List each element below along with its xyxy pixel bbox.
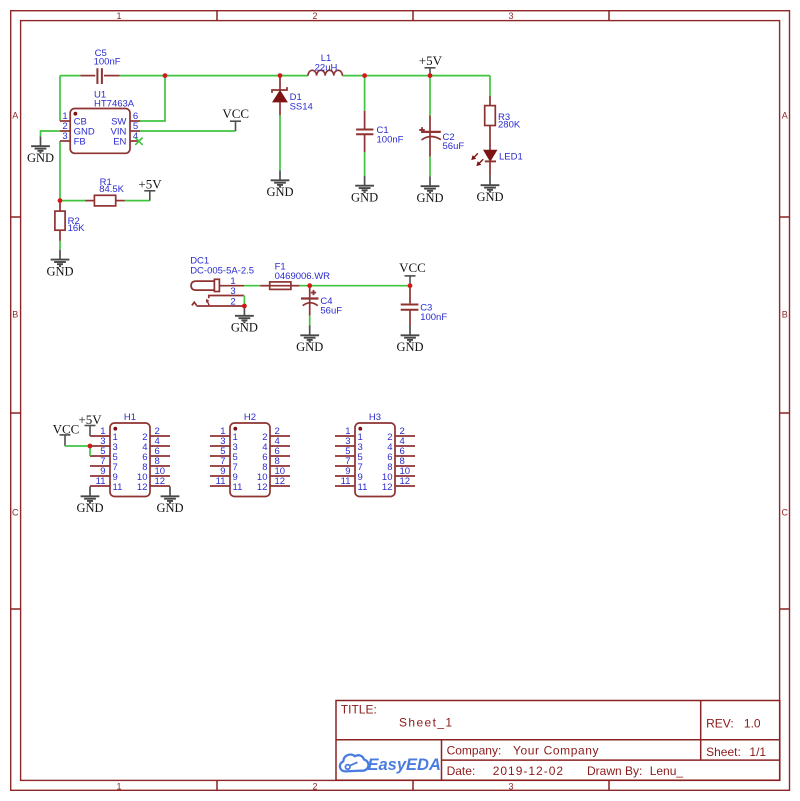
svg-text:DC-005-5A-2.5: DC-005-5A-2.5: [190, 266, 254, 277]
H3 pin 10: [382, 466, 415, 483]
svg-text:EasyEDA: EasyEDA: [368, 756, 441, 774]
port VCC at H1: [53, 422, 80, 446]
svg-text:H1: H1: [124, 412, 136, 423]
frame tick left 3: [11, 608, 21, 610]
wire VCC to H1 pin3: [65, 445, 90, 447]
svg-text:1: 1: [116, 11, 121, 21]
frame tick top 2: [412, 11, 414, 21]
wire C2 top: [429, 76, 431, 116]
wire top net left segment: [60, 75, 80, 77]
svg-text:A: A: [782, 110, 788, 120]
H1 pin 6: [142, 446, 170, 463]
svg-text:Sheet:: Sheet:: [706, 745, 741, 759]
capacitor C3 100nF: [401, 286, 448, 326]
H2 pin 2: [262, 426, 290, 443]
ground GND at DC1: [231, 306, 258, 335]
H3 pin 11: [335, 476, 367, 493]
port VCC middle net: [399, 260, 426, 286]
H1 pin 7: [90, 456, 118, 473]
wire F1 to VCC node: [299, 285, 410, 287]
title block right column divider: [700, 701, 702, 761]
svg-text:12: 12: [155, 476, 166, 487]
H1 pin 4: [142, 436, 170, 453]
frame tick bottom 1: [216, 780, 218, 790]
H3 pin 2: [387, 426, 415, 443]
title block logo cell divider: [441, 740, 443, 780]
wire top net middle segment: [120, 75, 308, 77]
port +5V top net: [419, 53, 443, 76]
svg-text:Drawn By:: Drawn By:: [587, 764, 642, 778]
H2 pin 11: [210, 476, 242, 493]
H2 pin 1: [210, 426, 238, 443]
U1 pin 4 EN no-connect: [113, 131, 142, 147]
title block outline: [336, 701, 780, 781]
wire C1 to GND: [364, 152, 366, 176]
wire R2 to GND: [59, 241, 61, 250]
svg-text:TITLE:: TITLE:: [341, 703, 377, 717]
wire node to R1: [60, 200, 85, 202]
svg-text:1/1: 1/1: [749, 745, 766, 759]
frame tick right 1: [780, 216, 790, 218]
wire U1 pin6 to top net: [140, 76, 165, 121]
wire D1 to GND: [279, 115, 281, 170]
wire R3 branch down: [489, 76, 491, 96]
wire DC1 to F1: [244, 285, 260, 287]
svg-text:+5V: +5V: [138, 176, 162, 191]
ground GND at C2: [416, 176, 443, 205]
ground GND at U1 pin2: [27, 136, 54, 165]
svg-text:2: 2: [312, 11, 317, 21]
ground GND at C1: [351, 176, 378, 205]
svg-text:56uF: 56uF: [443, 141, 465, 152]
H3 pin 9: [335, 466, 363, 483]
svg-text:2: 2: [312, 781, 317, 791]
svg-text:12: 12: [400, 476, 411, 487]
svg-text:SS14: SS14: [290, 102, 313, 113]
svg-text:A: A: [12, 110, 18, 120]
wire U1 pin2 to GND: [41, 131, 61, 136]
frame tick bottom 3: [608, 780, 610, 790]
frame tick right 3: [780, 608, 790, 610]
svg-text:H2: H2: [244, 412, 256, 423]
wire H1 pin3 to pin5: [89, 446, 91, 456]
svg-text:11: 11: [358, 482, 368, 493]
H3 pin 6: [387, 446, 415, 463]
H3 pin 7: [335, 456, 363, 473]
svg-text:100nF: 100nF: [94, 57, 121, 68]
wire C1 top: [364, 76, 366, 111]
svg-text:+5V: +5V: [419, 53, 443, 68]
node junction R1 R2 FB: [58, 198, 63, 203]
connector H3 body: [355, 412, 395, 496]
H3 pin 1: [335, 426, 363, 443]
LED LED1: [471, 150, 523, 175]
H1 pin 5: [90, 446, 118, 463]
svg-text:VCC: VCC: [399, 260, 426, 275]
H1 pin 10: [137, 466, 170, 483]
H2 pin 4: [262, 436, 290, 453]
node junction C4: [307, 283, 312, 288]
svg-text:11: 11: [216, 476, 226, 487]
wire C4 to GND: [309, 316, 311, 326]
node junction H1 pin3: [88, 444, 93, 449]
svg-text:11: 11: [341, 476, 351, 487]
DC1 pin 1: [219, 276, 244, 287]
svg-text:1.0: 1.0: [744, 716, 761, 730]
svg-text:VCC: VCC: [53, 422, 80, 437]
capacitor C2 56uF polarized: [419, 115, 464, 156]
node junction C2 +5V port: [428, 73, 433, 78]
svg-text:LED1: LED1: [499, 152, 523, 163]
DC1 pin 2 sleeve: [192, 297, 244, 308]
wire top net right segment: [342, 75, 490, 77]
ground GND at LED1: [476, 175, 503, 204]
H3 pin 5: [335, 446, 363, 463]
connector H2 body: [230, 412, 270, 496]
svg-text:2: 2: [230, 297, 235, 308]
svg-text:12: 12: [275, 476, 286, 487]
EasyEDA logo cloud: [340, 755, 369, 772]
svg-text:3: 3: [62, 131, 67, 142]
H2 pin 3: [210, 436, 238, 453]
frame tick top 1: [216, 11, 218, 21]
wire C2 to GND: [429, 157, 431, 177]
node junction C3 VCC port: [408, 283, 413, 288]
svg-text:280K: 280K: [498, 120, 521, 131]
op-amp U1 HT7463A body: [70, 90, 135, 154]
H3 pin 12: [382, 476, 415, 493]
U1 pin 2 GND: [60, 121, 95, 137]
H3 pin 3: [335, 436, 363, 453]
frame tick right 2: [780, 412, 790, 414]
U1 pin 1 CB: [60, 111, 87, 127]
connector H1 body: [110, 412, 150, 496]
title block lower row divider: [442, 759, 780, 761]
svg-text:3: 3: [230, 286, 235, 297]
resistor R2 16K: [55, 201, 85, 241]
U1 pin 3 FB: [60, 131, 86, 147]
H1 pin 3: [90, 436, 118, 453]
svg-text:B: B: [782, 309, 788, 319]
ground GND at C3: [396, 326, 423, 355]
svg-text:100nF: 100nF: [420, 312, 447, 323]
svg-text:C: C: [781, 507, 788, 517]
svg-text:12: 12: [382, 482, 393, 493]
svg-text:B: B: [12, 309, 18, 319]
resistor R3 280K: [485, 96, 521, 150]
capacitor C5: [80, 48, 120, 84]
wire R1 to +5V: [125, 200, 150, 202]
H1 pin 11: [90, 476, 122, 493]
ground GND at H1 pin11: [76, 487, 103, 516]
svg-text:11: 11: [96, 476, 106, 487]
svg-text:1: 1: [116, 781, 121, 791]
ground GND at H1 pin12: [156, 487, 183, 516]
resistor R1 84.5K: [85, 177, 125, 206]
ground GND at R2: [46, 250, 73, 279]
wire DC1 pin3 to pin2: [243, 296, 245, 307]
svg-text:Date:: Date:: [447, 764, 476, 778]
svg-text:Your Company: Your Company: [513, 743, 599, 757]
H1 pin 9: [90, 466, 118, 483]
svg-text:H3: H3: [369, 412, 381, 423]
node junction DC1 pins: [242, 304, 247, 309]
svg-text:12: 12: [137, 482, 148, 493]
svg-text:11: 11: [233, 482, 243, 493]
svg-text:C: C: [12, 507, 19, 517]
svg-text:22uH: 22uH: [315, 63, 338, 74]
port +5V at R1: [138, 176, 162, 200]
capacitor C1 100nF: [356, 111, 404, 152]
node junction C1: [362, 73, 367, 78]
svg-text:REV:: REV:: [706, 716, 734, 730]
port +5V at H1 pin1: [78, 412, 102, 436]
svg-text:Company:: Company:: [447, 743, 502, 757]
H1 pin 1: [90, 426, 118, 443]
capacitor C4 56uF polarized: [301, 286, 342, 317]
node junction at x165: [163, 73, 168, 78]
svg-text:3: 3: [508, 781, 513, 791]
U1 pin 6 SW: [111, 111, 140, 127]
inductor L1 22uH: [308, 53, 342, 76]
frame tick top 3: [608, 11, 610, 21]
U1 pin 5 VIN: [111, 121, 140, 137]
svg-text:EN: EN: [113, 137, 126, 148]
frame tick left 2: [11, 412, 21, 414]
fuse F1 0469006.WR: [260, 262, 330, 290]
H2 pin 10: [257, 466, 290, 483]
svg-text:Lenu_: Lenu_: [650, 764, 684, 778]
svg-text:56uF: 56uF: [320, 306, 342, 317]
svg-text:FB: FB: [74, 137, 86, 148]
svg-text:11: 11: [113, 482, 123, 493]
svg-text:0469006.WR: 0469006.WR: [275, 271, 331, 282]
svg-text:3: 3: [508, 11, 513, 21]
svg-text:84.5K: 84.5K: [99, 184, 124, 195]
svg-text:100nF: 100nF: [377, 135, 404, 146]
wire U1 pin5 to VCC: [140, 130, 236, 132]
DC1 pin 3 switch contact: [209, 286, 244, 298]
svg-text:+5V: +5V: [78, 412, 102, 427]
H1 pin 8: [142, 456, 170, 473]
H1 pin 12: [137, 476, 170, 493]
frame tick left 1: [11, 216, 21, 218]
H2 pin 8: [262, 456, 290, 473]
H2 pin 6: [262, 446, 290, 463]
H2 pin 9: [210, 466, 238, 483]
wire left vertical to U1 pin1: [59, 76, 61, 121]
port VCC at U1 pin5: [222, 106, 249, 131]
svg-text:16K: 16K: [68, 223, 86, 234]
H3 pin 8: [387, 456, 415, 473]
connector DC1 DC-005-5A-2.5 power jack: [190, 256, 254, 292]
ground GND at C4: [296, 326, 323, 355]
ground GND at D1: [266, 171, 293, 200]
svg-text:12: 12: [257, 482, 268, 493]
H2 pin 7: [210, 456, 238, 473]
frame tick bottom 2: [412, 780, 414, 790]
title block main divider: [336, 739, 780, 741]
H1 pin 2: [142, 426, 170, 443]
H3 pin 4: [387, 436, 415, 453]
node junction D1: [278, 73, 283, 78]
H2 pin 12: [257, 476, 290, 493]
svg-text:Sheet_1: Sheet_1: [399, 716, 454, 730]
wire U1 pin3 down to R1 node: [59, 141, 61, 201]
svg-text:2019-12-02: 2019-12-02: [493, 764, 564, 778]
H2 pin 5: [210, 446, 238, 463]
svg-text:HT7463A: HT7463A: [94, 99, 135, 110]
svg-text:VCC: VCC: [222, 106, 249, 121]
diode D1 SS14 schottky: [272, 76, 313, 116]
